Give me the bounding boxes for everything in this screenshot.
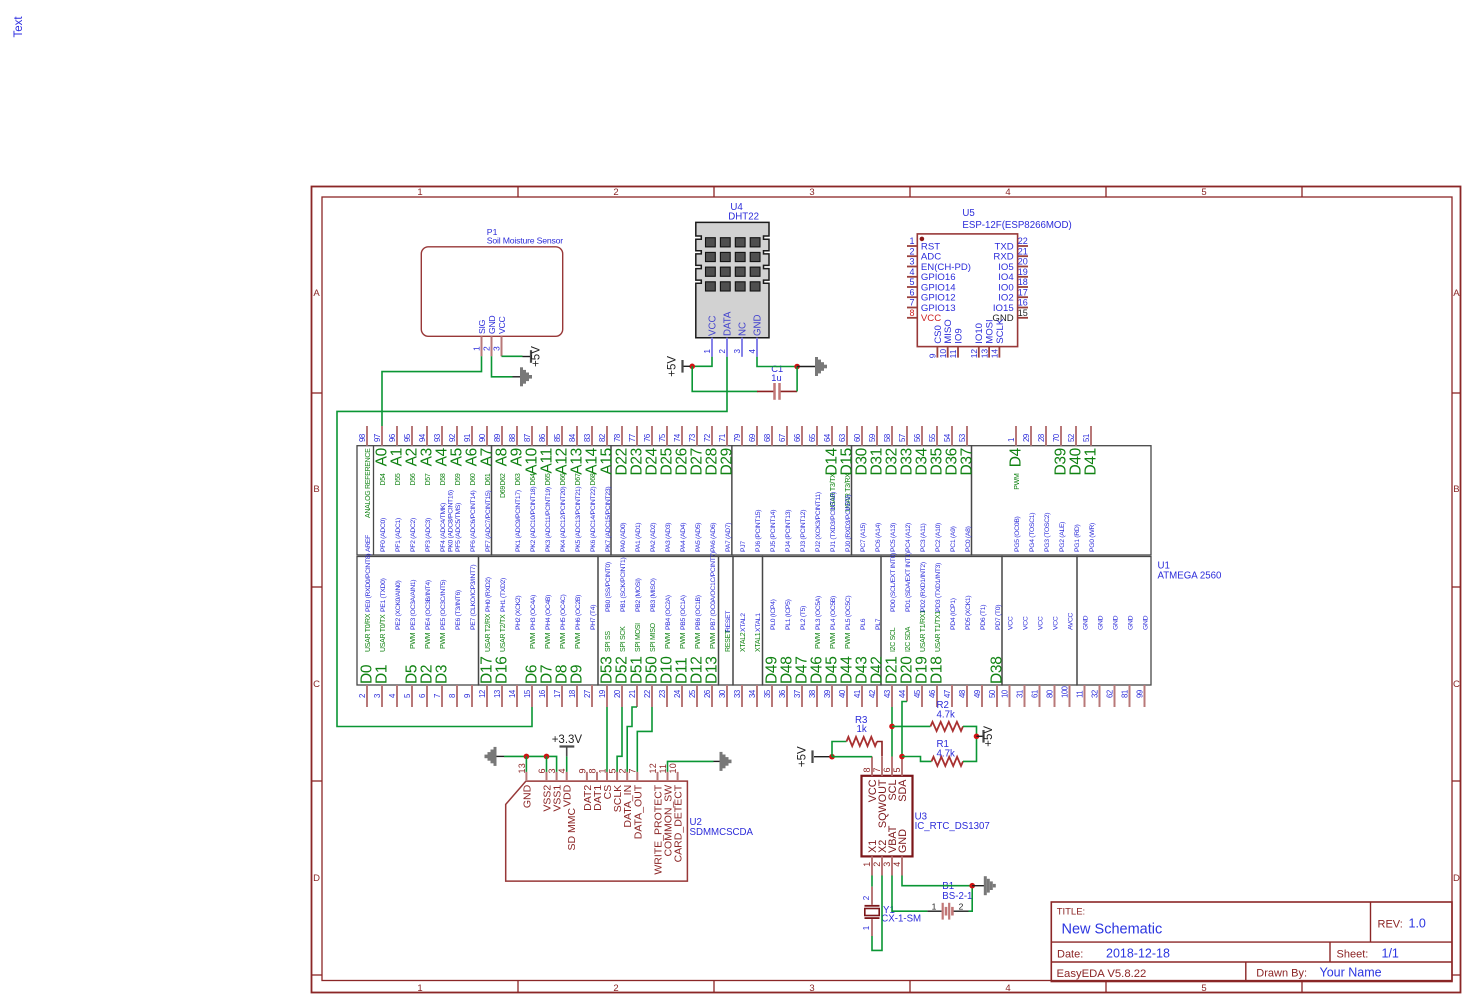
svg-text:D68: D68 <box>590 473 597 485</box>
svg-text:6: 6 <box>418 694 427 698</box>
svg-text:67: 67 <box>778 434 787 442</box>
svg-text:VCC: VCC <box>921 313 941 324</box>
svg-text:12: 12 <box>969 349 979 359</box>
U1 bottom pin 81 <box>1129 685 1131 707</box>
svg-text:PB0 (SS/PCINT0): PB0 (SS/PCINT0) <box>605 562 612 612</box>
svg-text:PWM: PWM <box>1014 473 1021 490</box>
svg-text:78: 78 <box>613 434 622 442</box>
U5 right pin 20 IO5 <box>1018 266 1028 268</box>
wire U1 pin20 D52 to SD SCLK <box>617 707 622 772</box>
wire U1 pin43 D21 SCL to U3 SCL pin6 <box>891 707 893 757</box>
svg-text:PA3 (AD3): PA3 (AD3) <box>665 523 672 552</box>
svg-text:21: 21 <box>1018 246 1028 256</box>
svg-text:D64: D64 <box>530 473 537 485</box>
U1 top pin 64 <box>831 426 833 446</box>
U1 top pin 91 <box>471 426 473 446</box>
svg-text:PJ6 (PCINT15): PJ6 (PCINT15) <box>755 510 762 552</box>
svg-text:88: 88 <box>508 434 517 442</box>
svg-text:60: 60 <box>853 433 862 442</box>
U1 bottom pin 30 <box>726 685 728 707</box>
svg-text:PD3 (TXD1/INT3): PD3 (TXD1/INT3) <box>935 563 942 612</box>
U5 right pin 22 TXD <box>1018 245 1028 247</box>
svg-text:VCC: VCC <box>1038 616 1045 630</box>
svg-text:PL4 (OC5B): PL4 (OC5B) <box>830 596 837 630</box>
svg-text:D65: D65 <box>545 473 552 485</box>
U3 top pin 7 SQWOUT <box>881 757 883 776</box>
svg-text:5: 5 <box>403 693 412 698</box>
svg-text:D61: D61 <box>485 473 492 485</box>
svg-text:PL1 (ICP5): PL1 (ICP5) <box>785 599 792 630</box>
svg-text:2: 2 <box>909 246 914 256</box>
svg-text:DATA: DATA <box>723 311 734 336</box>
svg-text:PJ7: PJ7 <box>740 541 747 552</box>
svg-text:54: 54 <box>943 433 952 442</box>
U1 bottom pin 7 <box>441 685 443 707</box>
svg-text:SDMMCSCDA: SDMMCSCDA <box>690 827 754 838</box>
svg-text:PG0 (WR): PG0 (WR) <box>1089 523 1096 552</box>
svg-text:3: 3 <box>809 983 814 994</box>
svg-text:26: 26 <box>703 690 712 698</box>
svg-text:10: 10 <box>668 763 678 773</box>
svg-text:IO9: IO9 <box>953 328 964 343</box>
svg-text:75: 75 <box>658 433 667 442</box>
svg-text:32: 32 <box>1090 690 1099 698</box>
U2 pin 5 SCLK <box>616 772 618 781</box>
svg-text:48: 48 <box>958 690 967 698</box>
svg-text:91: 91 <box>463 434 472 442</box>
svg-text:U5: U5 <box>962 208 974 219</box>
svg-text:36: 36 <box>778 690 787 698</box>
U3 top pin 5 SDA <box>901 757 903 776</box>
svg-text:31: 31 <box>1015 690 1024 698</box>
svg-text:87: 87 <box>523 434 532 442</box>
svg-text:PD1 (SDA/EXT INT1): PD1 (SDA/EXT INT1) <box>905 552 912 612</box>
svg-text:D60: D60 <box>470 473 477 485</box>
U1 bottom pin 34 <box>756 685 758 707</box>
U1 top pin 60 <box>861 426 863 446</box>
svg-text:REV:: REV: <box>1378 918 1403 930</box>
wire SCL to R2 <box>892 725 931 727</box>
svg-text:D62: D62 <box>500 473 507 485</box>
U1 top pin 69 <box>756 426 758 446</box>
U5 left pin 3 EN(CH-PD) <box>907 266 917 268</box>
svg-text:15: 15 <box>523 689 532 698</box>
svg-text:D56: D56 <box>410 473 417 485</box>
svg-text:50: 50 <box>988 689 997 698</box>
svg-text:43: 43 <box>883 690 892 698</box>
svg-text:D: D <box>313 873 320 884</box>
svg-text:PG2 (ALE): PG2 (ALE) <box>1059 522 1066 552</box>
svg-text:3: 3 <box>909 257 914 267</box>
U5 bottom pin 11 IO9 <box>957 347 959 358</box>
U2 pin 7 DATA_OUT <box>636 772 638 781</box>
svg-text:PF1 (ADC1): PF1 (ADC1) <box>395 518 402 552</box>
svg-text:1k: 1k <box>857 724 867 735</box>
svg-text:5: 5 <box>892 767 902 772</box>
svg-text:D55: D55 <box>395 473 402 485</box>
svg-text:2: 2 <box>482 346 492 351</box>
svg-text:7: 7 <box>433 694 442 698</box>
svg-text:3: 3 <box>492 346 502 351</box>
svg-text:5: 5 <box>909 277 914 287</box>
ground at DHT/C1 <box>815 357 818 376</box>
svg-text:USAR T2/TX: USAR T2/TX <box>500 614 507 652</box>
U1 bottom pin 20 <box>621 685 623 707</box>
svg-text:TITLE:: TITLE: <box>1057 907 1086 918</box>
svg-text:D: D <box>1453 873 1460 884</box>
svg-text:PG4 (TOSC1): PG4 (TOSC1) <box>1029 513 1036 552</box>
svg-text:44: 44 <box>898 689 907 698</box>
svg-text:VCC: VCC <box>1023 616 1030 630</box>
svg-text:PK7 (ADC15/PCINT23): PK7 (ADC15/PCINT23) <box>605 487 612 552</box>
svg-text:Sheet:: Sheet: <box>1337 949 1369 961</box>
U1 bottom pin 22 <box>651 685 653 707</box>
svg-text:USAR T2/RX: USAR T2/RX <box>485 613 492 652</box>
U2 pin 6 VSS2 <box>546 772 548 781</box>
U2 pin 11 COMMON_SW <box>667 772 669 781</box>
svg-text:PF0 (ADC0): PF0 (ADC0) <box>380 518 387 552</box>
svg-text:PC6 (A14): PC6 (A14) <box>875 523 882 552</box>
svg-text:VDD: VDD <box>562 784 574 807</box>
svg-text:PB6 (OC1B): PB6 (OC1B) <box>695 595 702 630</box>
wire R1 to +5V <box>963 736 977 761</box>
svg-text:99: 99 <box>1135 690 1144 698</box>
svg-text:98: 98 <box>358 434 367 442</box>
U1 bottom pin 3 <box>381 685 383 707</box>
svg-text:XTAL2: XTAL2 <box>740 613 747 632</box>
svg-text:8: 8 <box>862 767 872 772</box>
svg-text:PG1 (RD): PG1 (RD) <box>1074 525 1081 552</box>
svg-text:85: 85 <box>553 433 562 442</box>
U1 top pin 76 <box>651 426 653 446</box>
svg-text:10: 10 <box>938 349 948 359</box>
svg-text:XTAL1: XTAL1 <box>755 632 762 652</box>
svg-text:PK6 (ADC14/PCINT22): PK6 (ADC14/PCINT22) <box>590 487 597 552</box>
svg-text:7: 7 <box>909 298 914 308</box>
U4 pin 4 GND <box>756 338 758 357</box>
U5 right pin 19 IO4 <box>1018 276 1028 278</box>
node ground junction at battery <box>969 883 975 889</box>
resistor R1 4.7k <box>932 757 964 766</box>
U2 pin 9 DAT2 <box>586 772 588 781</box>
svg-text:PC0 (A8): PC0 (A8) <box>965 526 972 552</box>
svg-text:USAR T0/RX: USAR T0/RX <box>365 613 372 652</box>
svg-text:4.7k: 4.7k <box>937 748 955 759</box>
svg-text:5: 5 <box>608 768 618 773</box>
U1 top pin 94 <box>426 426 428 446</box>
U1 top pin 67 <box>786 426 788 446</box>
svg-text:Soil Moisture Sensor: Soil Moisture Sensor <box>487 236 563 246</box>
svg-text:6: 6 <box>537 768 547 773</box>
svg-text:20: 20 <box>613 689 622 698</box>
P1 pin 3 VCC <box>501 336 503 356</box>
U1 top pin 58 <box>891 426 893 446</box>
svg-text:37: 37 <box>793 690 802 698</box>
svg-text:PF2 (ADC2): PF2 (ADC2) <box>410 518 417 552</box>
U1 bottom pin 26 <box>711 685 713 707</box>
svg-text:2: 2 <box>618 768 628 773</box>
U1 bottom pin 11 <box>1084 685 1086 707</box>
U1 top pin 85 <box>561 426 563 446</box>
svg-text:77: 77 <box>628 434 637 442</box>
U1 bottom pin 14 <box>516 685 518 707</box>
svg-text:PH0 (RXD2): PH0 (RXD2) <box>485 577 492 612</box>
svg-text:4: 4 <box>892 862 902 867</box>
U2 pin 4 VDD <box>566 772 568 781</box>
svg-text:9: 9 <box>577 768 587 773</box>
svg-text:PJ5 (PCINT14): PJ5 (PCINT14) <box>770 510 777 552</box>
svg-text:6: 6 <box>909 287 914 297</box>
U1 top pin 70 <box>1060 426 1062 446</box>
svg-text:7: 7 <box>628 768 638 773</box>
U1 bottom pin 17 <box>561 685 563 707</box>
frame ticks left <box>312 392 323 394</box>
U1 top pin 92 <box>456 426 458 446</box>
U1 top pin 55 <box>936 426 938 446</box>
svg-text:83: 83 <box>583 434 592 442</box>
U1 top pin 74 <box>681 426 683 446</box>
svg-text:XTAL2: XTAL2 <box>740 632 747 652</box>
svg-text:19: 19 <box>598 690 607 698</box>
svg-text:28: 28 <box>1037 434 1046 442</box>
svg-text:+5V: +5V <box>531 346 543 367</box>
svg-text:D37: D37 <box>959 448 976 476</box>
svg-text:90: 90 <box>478 433 487 442</box>
node +5V junction at DHT <box>689 364 695 370</box>
svg-text:10: 10 <box>1000 689 1009 698</box>
U1 top pin 98 <box>366 426 368 446</box>
svg-text:64: 64 <box>823 433 832 442</box>
svg-text:PB3 (MISO): PB3 (MISO) <box>650 578 657 612</box>
svg-text:22: 22 <box>643 690 652 698</box>
svg-text:39: 39 <box>823 690 832 698</box>
U1 bottom pin 100 <box>1069 685 1071 707</box>
svg-text:PA1 (AD1): PA1 (AD1) <box>635 523 642 552</box>
svg-text:PH5 (OC4C): PH5 (OC4C) <box>560 594 567 630</box>
svg-text:PL7: PL7 <box>875 618 882 630</box>
svg-text:PA6 (AD6): PA6 (AD6) <box>710 523 717 552</box>
U1 top pin 53 <box>966 426 968 446</box>
svg-text:PE6 (T3/INT6): PE6 (T3/INT6) <box>455 590 462 630</box>
wire U1 pin19 D53 to SD CS <box>606 707 608 772</box>
svg-text:PE1 (TXD0): PE1 (TXD0) <box>380 578 387 612</box>
U2 pin 12 WRITE_PROTECT <box>657 772 659 781</box>
svg-text:73: 73 <box>688 434 697 442</box>
U1 top pin 75 <box>666 426 668 446</box>
U5 right pin 17 IO2 <box>1018 296 1028 298</box>
svg-text:PC2 (A10): PC2 (A10) <box>935 523 942 552</box>
svg-text:5: 5 <box>1201 983 1206 994</box>
U1 bottom pin 37 <box>801 685 803 707</box>
power +5V right of R1 <box>982 730 984 743</box>
svg-text:95: 95 <box>403 433 412 442</box>
svg-text:PJ4 (PCINT13): PJ4 (PCINT13) <box>785 510 792 552</box>
U1 bottom pin 62 <box>1114 685 1116 707</box>
svg-text:PWM: PWM <box>440 632 447 649</box>
svg-text:80: 80 <box>1045 689 1054 698</box>
svg-text:2: 2 <box>718 349 727 354</box>
wire SD VDD to +3.3V <box>566 756 568 772</box>
svg-text:NC: NC <box>738 322 749 336</box>
svg-text:PWM: PWM <box>845 632 852 649</box>
wire +5V to C1 left <box>692 366 757 391</box>
svg-text:66: 66 <box>793 434 802 442</box>
svg-text:PF5 (ADC5/TMS): PF5 (ADC5/TMS) <box>455 503 462 552</box>
U5 left pin 6 GPIO12 <box>907 296 917 298</box>
svg-text:PK5 (ADC13/PCINT21): PK5 (ADC13/PCINT21) <box>575 487 582 552</box>
resistor R3 1k <box>847 737 878 746</box>
svg-text:PL2 (T5): PL2 (T5) <box>800 606 807 630</box>
U2 pin 10 CARD_DETECT <box>677 772 679 781</box>
svg-text:1: 1 <box>862 925 871 930</box>
U1 top pin 95 <box>411 426 413 446</box>
wire U3 X1 pin1 to crystal Y1 <box>871 876 873 887</box>
U1 bottom pin 99 <box>1144 685 1146 707</box>
svg-text:DATA_OUT: DATA_OUT <box>632 784 644 839</box>
svg-text:+5V: +5V <box>983 726 995 747</box>
svg-text:PB7 (OC0A/OC1C/PCINT7): PB7 (OC0A/OC1C/PCINT7) <box>710 552 717 630</box>
svg-text:65: 65 <box>808 433 817 442</box>
svg-text:4: 4 <box>1005 983 1010 994</box>
svg-text:ATMEGA 2560: ATMEGA 2560 <box>1158 571 1223 582</box>
svg-text:59: 59 <box>868 434 877 442</box>
svg-text:D13: D13 <box>704 656 721 684</box>
U1 bottom pin 8 <box>456 685 458 707</box>
svg-text:15: 15 <box>1018 308 1028 318</box>
svg-text:SPI MOSI: SPI MOSI <box>635 623 642 652</box>
U2 pin 1 CS <box>606 772 608 781</box>
sensor U4 DHT22 body <box>696 222 769 337</box>
U1 bottom pin 39 <box>831 685 833 707</box>
svg-text:34: 34 <box>748 689 757 698</box>
U1 top pin 87 <box>531 426 533 446</box>
U3 bottom pin 2 X2 <box>881 856 883 875</box>
svg-text:PWM: PWM <box>665 632 672 649</box>
svg-text:PB2 (MOSI): PB2 (MOSI) <box>635 578 642 612</box>
U1 top pin 28 <box>1045 426 1047 446</box>
svg-text:XTAL1: XTAL1 <box>755 613 762 632</box>
svg-text:CARD_DETECT: CARD_DETECT <box>673 784 685 862</box>
svg-text:SPI MISO: SPI MISO <box>650 622 657 652</box>
svg-text:EasyEDA V5.8.22: EasyEDA V5.8.22 <box>1057 968 1147 980</box>
svg-text:ESP-12F(ESP8266MOD): ESP-12F(ESP8266MOD) <box>962 220 1071 231</box>
svg-text:PWM: PWM <box>530 632 537 649</box>
wire R3 to U3 SQWOUT pin7 <box>877 742 882 757</box>
svg-text:PC4 (A12): PC4 (A12) <box>905 523 912 552</box>
svg-text:A: A <box>1453 288 1460 299</box>
svg-text:D29: D29 <box>719 448 736 476</box>
svg-text:D38: D38 <box>989 656 1006 684</box>
U1 top pin 72 <box>711 426 713 446</box>
U4 grille squares <box>706 238 716 247</box>
U1 top pin 51 <box>1090 426 1092 446</box>
svg-text:C: C <box>1453 679 1460 690</box>
U1 bottom pin 24 <box>681 685 683 707</box>
frame ticks bottom <box>517 981 519 993</box>
svg-text:3: 3 <box>373 694 382 698</box>
U1 top pin 52 <box>1075 426 1077 446</box>
svg-text:57: 57 <box>898 434 907 442</box>
svg-text:22: 22 <box>1018 236 1028 246</box>
svg-text:1: 1 <box>1007 438 1016 442</box>
U1 bottom pin 27 <box>591 685 593 707</box>
U1 bottom pin 33 <box>741 685 743 707</box>
svg-text:74: 74 <box>673 433 682 442</box>
svg-text:Date:: Date: <box>1057 948 1083 960</box>
wire crystal pin1 to U3 X2 pin2 <box>872 876 882 951</box>
svg-text:11: 11 <box>948 349 958 358</box>
svg-text:PE5 (OC3C/INT5): PE5 (OC3C/INT5) <box>440 580 447 630</box>
frame ticks top <box>517 187 519 198</box>
U1 bottom pin 43 <box>891 685 893 707</box>
svg-text:PK1 (ADC9/PCINT17): PK1 (ADC9/PCINT17) <box>515 490 522 552</box>
wire P1 SIG to U1 pin97 A0 <box>382 356 482 426</box>
svg-text:VCC: VCC <box>1008 616 1015 630</box>
svg-text:2: 2 <box>872 862 882 867</box>
U3 bottom pin 4 GND <box>901 856 903 875</box>
svg-text:100: 100 <box>1060 685 1069 698</box>
U1 top pin 65 <box>816 426 818 446</box>
svg-text:PJ1 (TXD3/PCINT10): PJ1 (TXD3/PCINT10) <box>830 492 837 552</box>
svg-text:D54: D54 <box>380 473 387 485</box>
svg-text:PE3 (OC3A/AIN1): PE3 (OC3A/AIN1) <box>410 580 417 630</box>
svg-text:PA4 (AD4): PA4 (AD4) <box>680 523 687 552</box>
svg-text:+5V: +5V <box>667 356 679 377</box>
U3 bottom pin 1 X1 <box>871 856 873 875</box>
svg-text:4: 4 <box>909 267 914 277</box>
U1 bottom pin 13 <box>501 685 503 707</box>
svg-text:97: 97 <box>373 434 382 442</box>
svg-text:B: B <box>313 484 319 495</box>
svg-text:19: 19 <box>1018 267 1028 277</box>
connector P1 Soil Moisture Sensor body <box>421 247 562 336</box>
wire U1 pin22 D50 to SD DATA_OUT <box>637 707 652 772</box>
svg-text:16: 16 <box>1018 298 1028 308</box>
svg-text:46: 46 <box>928 690 937 698</box>
U1 bottom pin 49 <box>981 685 983 707</box>
svg-text:PE0 (RXD0/PCINT8): PE0 (RXD0/PCINT8) <box>365 554 372 612</box>
U5 left pin 8 VCC <box>907 317 917 319</box>
wire R2 to +5V <box>963 726 977 736</box>
power +5V at DHT <box>681 360 683 373</box>
U1 bottom pin 42 <box>876 685 878 707</box>
P1 pin 1 SIG <box>481 336 483 356</box>
svg-text:3: 3 <box>547 768 557 773</box>
IC U3 IC_RTC_DS1307 body <box>862 776 913 857</box>
svg-text:VCC: VCC <box>708 316 719 336</box>
U1 top pin 86 <box>546 426 548 446</box>
svg-text:PE2 (XCK0/AIN0): PE2 (XCK0/AIN0) <box>395 580 402 630</box>
svg-text:8: 8 <box>909 308 914 318</box>
svg-text:PC1 (A9): PC1 (A9) <box>950 526 957 552</box>
svg-text:IC_RTC_DS1307: IC_RTC_DS1307 <box>915 821 990 832</box>
svg-text:PWM: PWM <box>545 632 552 649</box>
svg-text:PK3 (ADC11/PCINT19): PK3 (ADC11/PCINT19) <box>545 487 552 552</box>
svg-text:PK0 (ADC8/PCINT16): PK0 (ADC8/PCINT16) <box>448 490 455 552</box>
wire DHT VCC to +5V <box>695 357 713 367</box>
svg-text:D69: D69 <box>500 486 507 498</box>
ground at SD left <box>494 747 497 766</box>
U5 left pin 4 GPIO16 <box>907 276 917 278</box>
svg-text:PB5 (OC1A): PB5 (OC1A) <box>680 595 687 630</box>
svg-text:2: 2 <box>862 895 871 900</box>
ground at P1 <box>520 367 523 386</box>
svg-text:PH3 (OC4A): PH3 (OC4A) <box>530 595 537 630</box>
frame ticks right <box>1452 392 1461 394</box>
U1 top pin 83 <box>591 426 593 446</box>
svg-text:4: 4 <box>1005 187 1010 198</box>
U5 left pin 5 GPIO14 <box>907 286 917 288</box>
